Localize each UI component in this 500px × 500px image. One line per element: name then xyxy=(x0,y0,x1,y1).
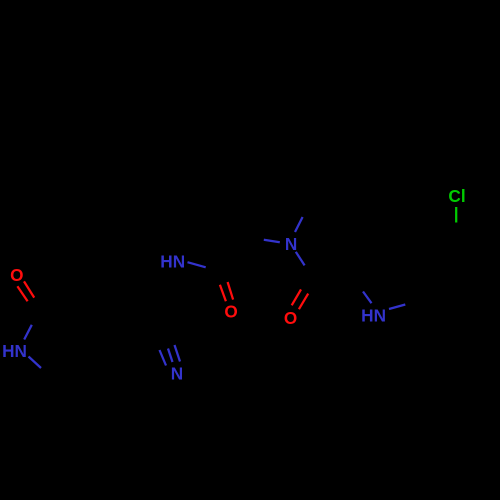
svg-text:O: O xyxy=(224,302,237,322)
wire N2-C(=O) blue half-bond xyxy=(188,262,206,267)
svg-text:O: O xyxy=(10,265,23,285)
wire N5-C2indole blue half-bond (up-left) xyxy=(363,292,372,304)
wire N5-C7a blue half-bond (up-right) xyxy=(389,305,405,310)
wire N1-C(=O) blue half-bond xyxy=(24,325,32,340)
svg-text:N: N xyxy=(285,234,297,254)
svg-text:Cl: Cl xyxy=(448,186,465,206)
svg-text:N: N xyxy=(171,364,183,384)
svg-text:HN: HN xyxy=(160,252,185,272)
triple bond C#N3 (blue half, three parallel lines) xyxy=(160,345,181,366)
svg-text:HN: HN xyxy=(361,305,386,325)
wire N4-C2ring blue half-bond (left) xyxy=(264,240,280,242)
double bond C=O2 (red half, two parallel lines) xyxy=(220,282,233,301)
wire N4-C(=O) blue half-bond (down-right) xyxy=(296,252,305,266)
svg-text:O: O xyxy=(284,308,297,328)
svg-text:HN: HN xyxy=(2,341,27,361)
double bond C=O3 (red half, two parallel lines) xyxy=(292,289,309,309)
wire N1-CH2 blue half-bond xyxy=(29,357,42,369)
wire Cl-C4 green half-bond (vertical) xyxy=(455,207,457,223)
double bond C=O1 (red half, two parallel lines) xyxy=(17,281,34,301)
wire N4-C5ring blue half-bond (up-right) xyxy=(295,217,303,232)
